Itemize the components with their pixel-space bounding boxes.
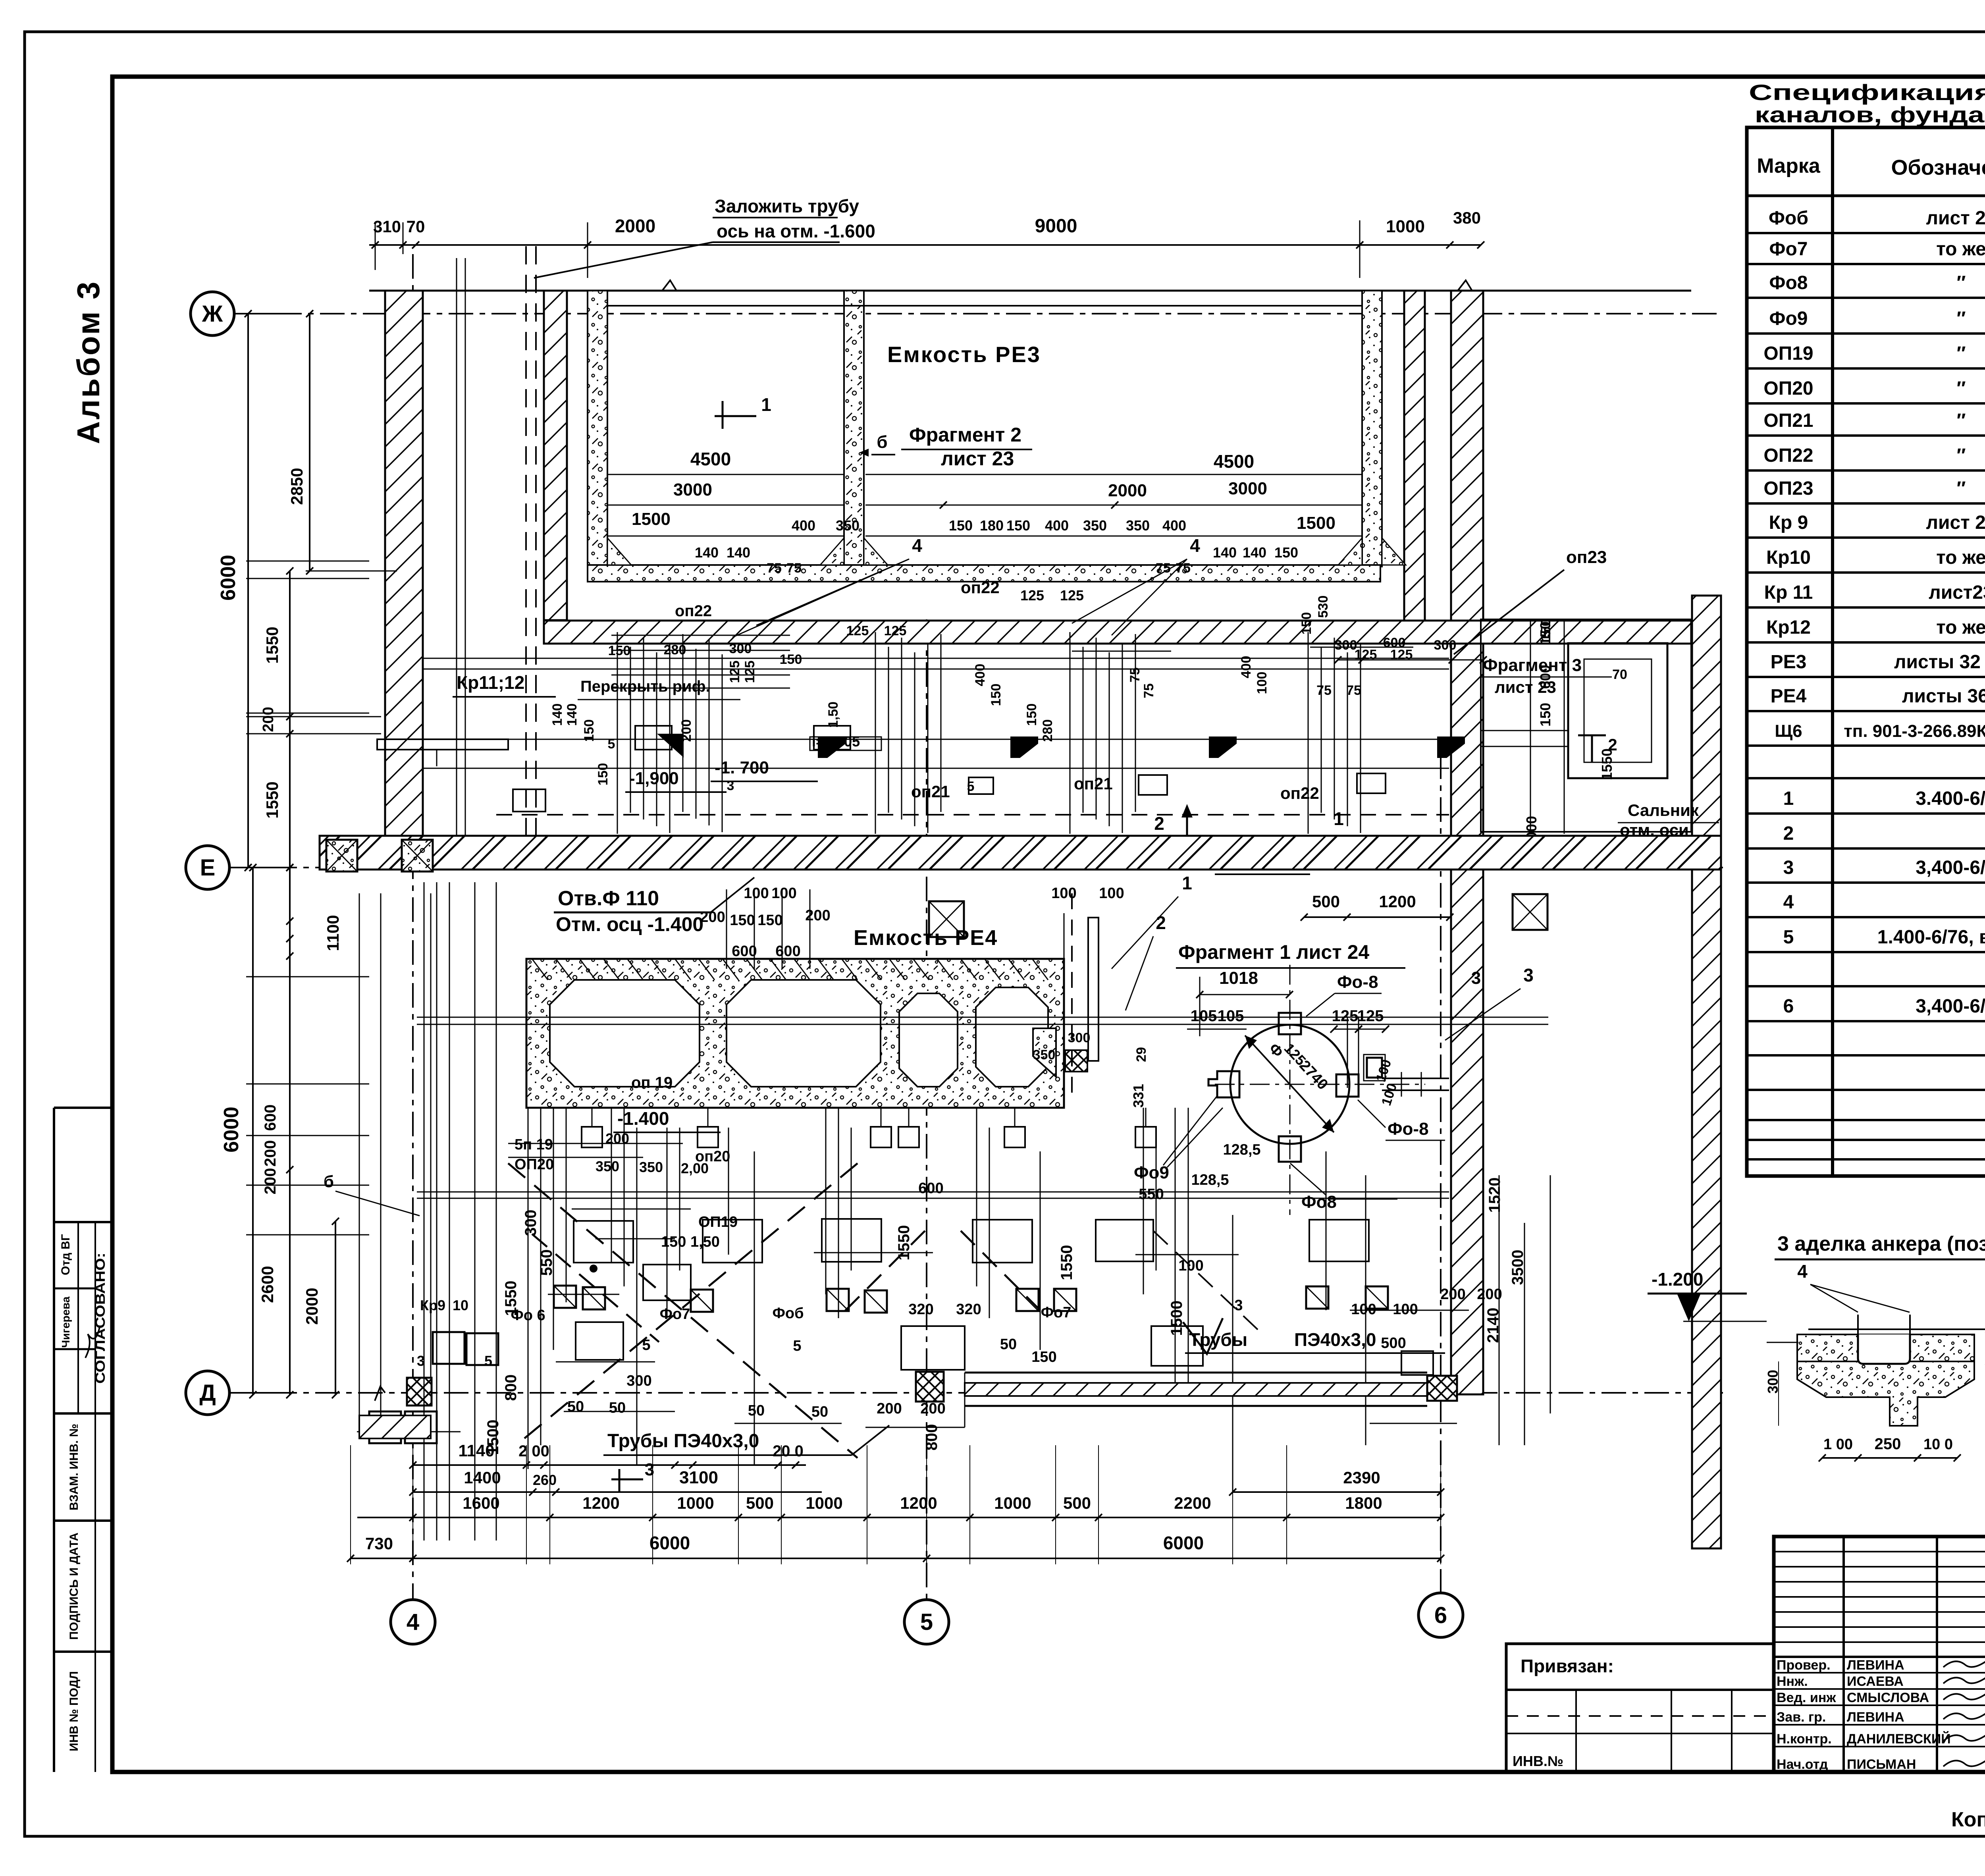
svg-text:6000: 6000 xyxy=(217,555,240,601)
svg-text:2000: 2000 xyxy=(615,216,655,236)
svg-text:350: 350 xyxy=(1083,517,1107,534)
Kr bracket on left wall xyxy=(377,739,508,750)
svg-text:150: 150 xyxy=(730,912,755,929)
svg-text:Емкость РЕ4: Емкость РЕ4 xyxy=(854,926,998,950)
svg-text:1500: 1500 xyxy=(1168,1301,1185,1336)
svg-text:ЛЕВИНА: ЛЕВИНА xyxy=(1847,1710,1904,1725)
svg-text:200: 200 xyxy=(1440,1286,1465,1303)
svg-text:Фо9: Фо9 xyxy=(1769,308,1808,329)
svg-text:лист 22: лист 22 xyxy=(1926,512,1985,533)
svg-text:75: 75 xyxy=(786,561,802,576)
dashed pipe line xyxy=(525,246,527,836)
axis dash-dot lines xyxy=(234,313,1723,314)
svg-text:3: 3 xyxy=(1783,857,1794,878)
svg-text:5: 5 xyxy=(608,737,615,752)
svg-text:100: 100 xyxy=(1178,1257,1203,1274)
svg-text:600: 600 xyxy=(775,943,800,960)
svg-text:РЕ3: РЕ3 xyxy=(1771,652,1807,673)
right lower verticals xyxy=(1499,1175,1500,1445)
svg-text:150: 150 xyxy=(1006,517,1030,534)
svg-text:оп 19: оп 19 xyxy=(631,1074,673,1091)
horizontal small lines left xyxy=(246,561,369,562)
svg-text:125: 125 xyxy=(727,661,742,683)
svg-text:4500: 4500 xyxy=(1214,451,1254,472)
svg-text:250: 250 xyxy=(1875,1435,1901,1453)
diagonal diameter xyxy=(1245,1035,1334,1132)
svg-text:70: 70 xyxy=(1612,667,1627,682)
left outer wall (hatched) xyxy=(385,291,423,838)
svg-text:Спецификация к схеме расположе: Спецификация к схеме расположения емкост… xyxy=(1749,80,1985,105)
svg-text:1200: 1200 xyxy=(582,1494,619,1512)
svg-text:1500: 1500 xyxy=(632,509,671,529)
svg-text:4: 4 xyxy=(1783,892,1794,913)
svg-text:140: 140 xyxy=(1213,544,1237,561)
svg-text:9000: 9000 xyxy=(1035,216,1077,237)
svg-text:Кр9: Кр9 xyxy=(420,1297,445,1313)
svg-text:лист 24: лист 24 xyxy=(1926,208,1985,229)
svg-text:1,50: 1,50 xyxy=(826,702,841,728)
svg-text:лист23: лист23 xyxy=(1929,582,1985,603)
svg-text:тп. 901-3-266.89КЖ.И,860,00: тп. 901-3-266.89КЖ.И,860,00 xyxy=(1844,721,1985,741)
svg-text:125: 125 xyxy=(846,623,869,638)
svg-text:140: 140 xyxy=(565,704,580,726)
svg-text:75: 75 xyxy=(1346,683,1361,698)
svg-text:3,400-6/76: 3,400-6/76 xyxy=(1916,996,1985,1017)
svg-text:Трубы: Трубы xyxy=(1189,1329,1247,1350)
svg-text:75: 75 xyxy=(1141,683,1156,698)
svg-text:600: 600 xyxy=(732,943,757,960)
svg-text:300: 300 xyxy=(729,641,752,656)
svg-text:1000: 1000 xyxy=(994,1494,1031,1512)
svg-text:600: 600 xyxy=(1537,665,1553,689)
svg-text:Кр10: Кр10 xyxy=(1766,547,1811,568)
svg-text:128,5: 128,5 xyxy=(1191,1172,1229,1188)
svg-text:Обозначение: Обозначение xyxy=(1891,156,1985,179)
tank RE3 walls (speckled) xyxy=(588,291,607,567)
svg-text:6000: 6000 xyxy=(649,1533,690,1553)
svg-text:Сальник: Сальник xyxy=(1628,801,1699,819)
svg-text:1: 1 xyxy=(1182,873,1192,893)
svg-text:Чигерева: Чигерева xyxy=(60,1296,72,1348)
svg-text:ПЭ40х3,0: ПЭ40х3,0 xyxy=(1294,1329,1376,1350)
svg-text:оп21: оп21 xyxy=(1074,774,1113,793)
svg-text:100: 100 xyxy=(1099,885,1124,902)
svg-text:Ж: Ж xyxy=(202,301,223,327)
500 1200 dims right top xyxy=(1304,916,1450,918)
svg-text:125: 125 xyxy=(884,623,907,638)
svg-text:3000: 3000 xyxy=(1228,479,1267,498)
privyazan block xyxy=(1506,1644,1774,1772)
svg-text:″: ″ xyxy=(1957,478,1966,499)
svg-text:4: 4 xyxy=(407,1609,419,1635)
svg-text:200: 200 xyxy=(260,707,277,732)
bottom dim rows xyxy=(413,1464,806,1466)
hatch ticks on RE4 border xyxy=(532,959,548,980)
svg-text:3: 3 xyxy=(1523,965,1534,985)
svg-text:″: ″ xyxy=(1957,272,1966,293)
svg-text:Е: Е xyxy=(200,855,216,881)
svg-text:Альбом 3: Альбом 3 xyxy=(71,280,106,444)
svg-text:350: 350 xyxy=(1033,1047,1056,1062)
svg-text:150: 150 xyxy=(595,763,611,786)
svg-text:Фо-8: Фо-8 xyxy=(1388,1119,1429,1139)
svg-text:200: 200 xyxy=(1477,1286,1502,1303)
svg-text:150 1,50: 150 1,50 xyxy=(661,1234,720,1250)
big circle xyxy=(1230,1025,1349,1144)
svg-text:Кр 11: Кр 11 xyxy=(1764,582,1813,603)
svg-text:1.400-6/76, вып. 1.: 1.400-6/76, вып. 1. xyxy=(1877,927,1985,948)
svg-text:350: 350 xyxy=(836,517,860,534)
svg-text:331: 331 xyxy=(1130,1084,1147,1108)
svg-text:350: 350 xyxy=(595,1158,619,1174)
svg-text:ОП20: ОП20 xyxy=(515,1156,554,1173)
svg-text:3: 3 xyxy=(417,1353,425,1369)
svg-text:500: 500 xyxy=(1063,1494,1091,1512)
svg-text:150: 150 xyxy=(582,719,597,742)
svg-text:3000: 3000 xyxy=(673,480,712,499)
svg-text:800: 800 xyxy=(502,1375,520,1401)
svg-text:листы 36, 37: листы 36, 37 xyxy=(1902,686,1985,707)
E band columns xyxy=(326,840,357,871)
building band under tank xyxy=(544,621,1691,644)
svg-text:2: 2 xyxy=(1783,823,1794,844)
svg-text:1200: 1200 xyxy=(900,1494,937,1512)
svg-text:2 00: 2 00 xyxy=(518,1442,549,1460)
svg-text:Фо8: Фо8 xyxy=(1301,1192,1337,1212)
svg-text:ИНВ.№: ИНВ.№ xyxy=(1513,1753,1563,1769)
tank RE3 bottom slab xyxy=(588,565,1380,582)
svg-text:50: 50 xyxy=(609,1400,626,1416)
dark pad right of RE4 xyxy=(1065,1050,1087,1072)
svg-text:500: 500 xyxy=(746,1494,774,1512)
building top edge xyxy=(369,290,1691,292)
svg-text:400: 400 xyxy=(1239,656,1254,679)
svg-text:6000: 6000 xyxy=(1163,1533,1204,1553)
title block xyxy=(1774,1537,1985,1772)
svg-text:3,400-6/76: 3,400-6/76 xyxy=(1916,857,1985,878)
svg-text:Марка: Марка xyxy=(1757,154,1821,177)
top dimension row xyxy=(369,244,1481,246)
svg-text:1550: 1550 xyxy=(1599,748,1615,780)
svg-text:1520: 1520 xyxy=(1486,1178,1503,1213)
svg-text:400: 400 xyxy=(1162,517,1186,534)
svg-text:75: 75 xyxy=(1316,683,1332,698)
svg-text:Щ6: Щ6 xyxy=(1775,721,1802,741)
svg-text:400: 400 xyxy=(973,664,988,686)
svg-text:ПОДПИСЬ И ДАТА: ПОДПИСЬ И ДАТА xyxy=(67,1533,81,1640)
svg-text:125: 125 xyxy=(1060,587,1084,603)
svg-text:4500: 4500 xyxy=(690,449,731,469)
svg-text:то же: то же xyxy=(1936,239,1985,260)
svg-text:150: 150 xyxy=(780,652,802,667)
svg-text:4: 4 xyxy=(1190,535,1200,556)
svg-text:50: 50 xyxy=(748,1402,765,1419)
svg-text:Фоб: Фоб xyxy=(1769,208,1808,229)
section flag 1 xyxy=(722,401,724,429)
right chamber (salnik) xyxy=(1481,619,1691,832)
lower-left pads cluster xyxy=(433,1332,464,1364)
svg-text:1550: 1550 xyxy=(502,1281,520,1316)
svg-text:2390: 2390 xyxy=(1343,1468,1380,1487)
T2 mark xyxy=(1578,735,1606,737)
svg-text:75: 75 xyxy=(767,561,782,576)
svg-text:150: 150 xyxy=(949,517,973,534)
svg-text:29: 29 xyxy=(1134,1047,1149,1062)
svg-text:300: 300 xyxy=(522,1210,540,1236)
svg-text:Вед. инж: Вед. инж xyxy=(1777,1690,1836,1705)
svg-text:Н.контр.: Н.контр. xyxy=(1777,1731,1832,1747)
circle pads xyxy=(1279,1013,1301,1034)
svg-text:2: 2 xyxy=(1154,813,1164,834)
svg-text:2200: 2200 xyxy=(1174,1494,1211,1512)
svg-text:200: 200 xyxy=(877,1400,902,1417)
svg-text:Заложить трубу: Заложить трубу xyxy=(715,196,859,216)
svg-text:Кр12: Кр12 xyxy=(1766,617,1811,638)
black support marks xyxy=(818,737,846,758)
svg-text:Д: Д xyxy=(199,1380,216,1406)
svg-text:400: 400 xyxy=(1045,517,1069,534)
svg-text:260: 260 xyxy=(533,1472,557,1488)
svg-text:150: 150 xyxy=(757,912,782,929)
svg-text:2000: 2000 xyxy=(303,1288,321,1325)
svg-text:200: 200 xyxy=(920,1400,945,1417)
specification table xyxy=(1747,127,1985,1176)
svg-text:200: 200 xyxy=(262,1168,279,1195)
svg-text:3: 3 xyxy=(727,778,734,793)
svg-text:2600: 2600 xyxy=(258,1266,277,1303)
pipes to right of circle xyxy=(1382,1078,1449,1079)
svg-text:1: 1 xyxy=(1783,788,1794,809)
svg-text:5: 5 xyxy=(484,1353,492,1369)
svg-text:140: 140 xyxy=(550,704,565,726)
svg-text:Фрагмент 2: Фрагмент 2 xyxy=(909,424,1021,446)
svg-text:Нач.отд: Нач.отд xyxy=(1777,1757,1828,1772)
D wall left pads xyxy=(359,1415,431,1438)
extra density verticals lower zone xyxy=(528,1108,529,1469)
svg-text:б: б xyxy=(877,432,887,452)
svg-text:1550: 1550 xyxy=(1058,1245,1075,1280)
svg-text:СОГЛАСОВАНО:: СОГЛАСОВАНО: xyxy=(93,1253,108,1384)
RE4 slab xyxy=(526,959,1064,1108)
svg-text:ОП19: ОП19 xyxy=(698,1214,738,1230)
svg-text:320: 320 xyxy=(956,1301,981,1318)
svg-text:125: 125 xyxy=(1332,1007,1359,1025)
svg-text:105: 105 xyxy=(1191,1007,1217,1025)
svg-text:125: 125 xyxy=(742,661,757,683)
D axis beam xyxy=(965,1372,1427,1374)
dense verticals cluster xyxy=(617,632,618,834)
svg-text:3: 3 xyxy=(1471,968,1481,988)
svg-text:10: 10 xyxy=(453,1297,468,1313)
svg-text:1100: 1100 xyxy=(324,915,342,951)
svg-text:1140: 1140 xyxy=(458,1441,494,1460)
svg-text:350: 350 xyxy=(639,1159,663,1175)
svg-text:ПИСЬМАН: ПИСЬМАН xyxy=(1847,1757,1916,1772)
svg-text:оп21: оп21 xyxy=(911,782,950,801)
left dim ladders xyxy=(247,314,249,868)
tank inner top lines xyxy=(607,305,1362,307)
svg-text:Ннж.: Ннж. xyxy=(1777,1674,1808,1689)
black triangle mark xyxy=(657,734,684,758)
svg-text:20 0: 20 0 xyxy=(773,1442,804,1460)
svg-text:i=0,005: i=0,005 xyxy=(812,733,860,750)
svg-text:Фо9: Фо9 xyxy=(1134,1163,1169,1182)
svg-text:Кр11;12: Кр11;12 xyxy=(457,672,524,693)
svg-text:600: 600 xyxy=(262,1105,279,1131)
svg-text:-1.200: -1.200 xyxy=(1652,1269,1703,1290)
svg-text:200: 200 xyxy=(700,909,725,925)
svg-text:ось на отм. -1.600: ось на отм. -1.600 xyxy=(717,221,875,241)
svg-text:Отд ВГ: Отд ВГ xyxy=(59,1234,72,1275)
svg-text:3500: 3500 xyxy=(1509,1250,1526,1285)
svg-text:1550: 1550 xyxy=(263,627,281,663)
svg-text:РЕ4: РЕ4 xyxy=(1771,686,1807,707)
svg-text:1800: 1800 xyxy=(1345,1494,1382,1512)
svg-text:6: 6 xyxy=(1783,996,1794,1017)
svg-text:310: 310 xyxy=(373,217,401,236)
svg-text:4: 4 xyxy=(912,535,922,556)
svg-text:″: ″ xyxy=(1957,445,1966,466)
svg-text:1000: 1000 xyxy=(1386,217,1425,236)
svg-text:2000: 2000 xyxy=(1108,481,1147,500)
svg-text:1550: 1550 xyxy=(263,781,281,818)
section flag 3 bottom xyxy=(619,1469,621,1493)
svg-text:125: 125 xyxy=(1020,587,1044,603)
svg-text:100: 100 xyxy=(1051,885,1076,902)
svg-text:128,5: 128,5 xyxy=(1223,1141,1260,1158)
svg-text:500: 500 xyxy=(1312,892,1340,911)
svg-text:ОП19: ОП19 xyxy=(1763,343,1813,364)
svg-text:то же: то же xyxy=(1936,547,1985,568)
svg-text:200: 200 xyxy=(262,1140,279,1167)
axis grid circles xyxy=(191,292,234,335)
svg-text:Фоб: Фоб xyxy=(772,1305,804,1322)
svg-text:1200: 1200 xyxy=(1379,892,1416,911)
left inner wall xyxy=(544,291,567,620)
svg-text:500: 500 xyxy=(1381,1335,1406,1352)
svg-text:б: б xyxy=(324,1172,334,1191)
svg-text:150: 150 xyxy=(1274,544,1298,561)
svg-text:Фо7: Фо7 xyxy=(660,1306,690,1323)
svg-text:5п 19: 5п 19 xyxy=(515,1136,553,1153)
svg-text:оп22: оп22 xyxy=(675,602,712,620)
svg-text:4: 4 xyxy=(1797,1261,1808,1282)
svg-text:1: 1 xyxy=(761,394,771,415)
svg-text:ОП22: ОП22 xyxy=(1763,445,1813,466)
svg-text:150: 150 xyxy=(1537,621,1553,645)
svg-text:СМЫСЛОВА: СМЫСЛОВА xyxy=(1847,1690,1929,1705)
svg-text:-1.400: -1.400 xyxy=(617,1108,669,1129)
svg-text:-1,900: -1,900 xyxy=(629,769,679,788)
svg-text:100: 100 xyxy=(1351,1301,1376,1318)
svg-text:730: 730 xyxy=(365,1534,393,1553)
left margin cells xyxy=(53,1108,55,1772)
svg-text:100: 100 xyxy=(1393,1301,1418,1318)
svg-text:Фрагмент 1 лист 24: Фрагмент 1 лист 24 xyxy=(1178,941,1369,963)
svg-text:Фрагмент 3: Фрагмент 3 xyxy=(1483,656,1582,675)
svg-text:140: 140 xyxy=(1243,544,1266,561)
svg-text:150: 150 xyxy=(1537,703,1553,727)
svg-text:″: ″ xyxy=(1957,410,1966,431)
svg-text:5: 5 xyxy=(642,1337,650,1353)
svg-text:-1. 700: -1. 700 xyxy=(715,758,769,777)
svg-text:1000: 1000 xyxy=(806,1494,842,1512)
svg-text:300: 300 xyxy=(1434,638,1457,653)
svg-text:1000: 1000 xyxy=(677,1494,714,1512)
svg-text:105: 105 xyxy=(1218,1007,1244,1025)
svg-text:5: 5 xyxy=(920,1609,933,1635)
svg-text:5: 5 xyxy=(1783,927,1794,948)
svg-text:150: 150 xyxy=(1024,704,1039,726)
svg-text:ОП23: ОП23 xyxy=(1763,478,1813,499)
svg-text:6: 6 xyxy=(1434,1602,1447,1628)
svg-text:ОП21: ОП21 xyxy=(1763,410,1813,431)
svg-text:листы 32 ... 34: листы 32 ... 34 xyxy=(1894,652,1985,673)
svg-text:6000: 6000 xyxy=(220,1107,243,1153)
svg-text:1550: 1550 xyxy=(895,1225,913,1261)
svg-text:50: 50 xyxy=(1000,1336,1017,1353)
svg-text:Отв.Ф 110: Отв.Ф 110 xyxy=(558,887,659,910)
svg-text:″: ″ xyxy=(1957,343,1966,364)
svg-text:ДАНИЛЕВСКИЙ: ДАНИЛЕВСКИЙ xyxy=(1847,1731,1951,1747)
svg-text:Трубы ПЭ40х3,0: Трубы ПЭ40х3,0 xyxy=(607,1431,759,1452)
svg-text:оп22: оп22 xyxy=(1280,784,1319,802)
svg-text:каналов, фундаментов под обор: каналов, фундаментов под оборудование , … xyxy=(1755,102,1985,127)
svg-text:Отм. осц -1.400: Отм. осц -1.400 xyxy=(556,913,703,935)
svg-text:320: 320 xyxy=(908,1301,933,1318)
svg-text:550: 550 xyxy=(1139,1186,1164,1203)
svg-text:Фо8: Фо8 xyxy=(1769,272,1808,293)
svg-text:ОП20: ОП20 xyxy=(1763,378,1813,399)
svg-text:2: 2 xyxy=(1156,912,1166,933)
right inner hatched wall W3a xyxy=(1404,291,1425,621)
svg-text:350: 350 xyxy=(1126,517,1150,534)
left channel verticals xyxy=(424,882,425,1541)
svg-text:10 0: 10 0 xyxy=(1923,1436,1953,1453)
channel lines below E xyxy=(417,1017,1548,1018)
svg-text:ИНВ № ПОДЛ: ИНВ № ПОДЛ xyxy=(67,1671,81,1751)
svg-text:125: 125 xyxy=(1357,1007,1384,1025)
svg-text:1 00: 1 00 xyxy=(1823,1436,1853,1453)
svg-text:″: ″ xyxy=(1957,308,1966,329)
svg-text:1400: 1400 xyxy=(464,1468,501,1487)
svg-text:70: 70 xyxy=(407,217,425,236)
svg-text:180: 180 xyxy=(980,517,1004,534)
lower mid web: foundation pads xyxy=(574,1221,633,1263)
svg-text:800: 800 xyxy=(923,1424,940,1451)
svg-text:2,00: 2,00 xyxy=(681,1160,709,1176)
svg-text:1: 1 xyxy=(1334,808,1344,829)
small black squares row xyxy=(554,1286,576,1308)
svg-text:150: 150 xyxy=(1299,612,1314,635)
svg-text:Копировал: АЛЕШИКОВА: Копировал: АЛЕШИКОВА xyxy=(1951,1808,1985,1831)
svg-text:1500: 1500 xyxy=(1297,513,1336,533)
svg-text:оп22: оп22 xyxy=(961,578,1000,597)
svg-text:600: 600 xyxy=(1383,635,1406,650)
svg-text:Кр 9: Кр 9 xyxy=(1769,512,1808,533)
right outer wall W3b xyxy=(1451,291,1483,1394)
svg-text:ИСАЕВА: ИСАЕВА xyxy=(1847,1674,1904,1689)
svg-text:100: 100 xyxy=(1255,672,1270,694)
svg-text:Зав. гр.: Зав. гр. xyxy=(1777,1710,1826,1725)
svg-text:150: 150 xyxy=(1031,1349,1056,1365)
svg-text:100: 100 xyxy=(771,885,796,902)
svg-text:Провер.: Провер. xyxy=(1777,1658,1831,1673)
svg-text:ЛЕВИНА: ЛЕВИНА xyxy=(1847,1658,1904,1673)
far right wall xyxy=(1692,596,1721,1548)
svg-text:100: 100 xyxy=(744,885,769,902)
svg-text:оп23: оп23 xyxy=(1566,548,1607,567)
